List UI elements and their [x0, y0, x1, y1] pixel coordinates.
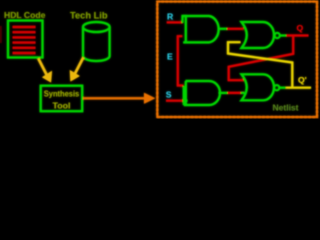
svg-text:S: S [166, 90, 172, 100]
Tech Lib database cylinder [83, 22, 110, 61]
wire S input [166, 100, 183, 102]
wire U2 output stub [219, 92, 228, 94]
svg-text:Synthesis: Synthesis [44, 89, 80, 99]
arrow from HDL Code to Synthesis Tool [38, 59, 52, 83]
wire Q feedback to U4 top input (red) [229, 36, 294, 81]
NAND gate U4 (bottom output gate) [242, 74, 275, 100]
wire U1 output stub [219, 28, 228, 30]
svg-text:Tech Lib: Tech Lib [70, 11, 108, 21]
wire R input [167, 21, 183, 23]
U4 output bubble [274, 85, 279, 90]
wire U1 output to U3 (red) [227, 28, 244, 30]
dashed netlist panel border [157, 2, 317, 118]
arrow from Tech Lib to Synthesis Tool [70, 58, 84, 82]
HDL code document red text lines [13, 27, 36, 53]
wire Q' feedback to U3 bottom input (yellow) [228, 42, 292, 87]
svg-text:Netlist: Netlist [273, 103, 299, 113]
svg-text:R: R [167, 11, 174, 21]
wire S green tick into gate U2 [183, 100, 187, 102]
svg-text:Tool: Tool [53, 101, 71, 111]
stray dark red mark at left edge [0, 26, 2, 43]
wire U2 output to U4 (red) [228, 92, 244, 94]
wire R riser to gate U1 top edge [183, 16, 188, 23]
wire U3 bubble tick [280, 34, 286, 36]
wire U2 bottom input junction tick [241, 92, 245, 94]
U3 output bubble [275, 33, 280, 38]
wire E vertical with branches to U1 and U2 [178, 36, 184, 85]
Synthesis Tool box [41, 86, 82, 112]
HDL code document icon box [8, 21, 43, 58]
svg-text:Q: Q [297, 23, 304, 33]
NAND gate U3 (top output gate) [242, 22, 275, 48]
svg-text:HDL Code: HDL Code [4, 10, 46, 20]
wire U4 bubble tick [280, 87, 286, 89]
orange arrow from Synthesis Tool to netlist panel [83, 93, 155, 104]
svg-text:Q': Q' [298, 75, 307, 85]
wire Q output (red) [286, 34, 308, 36]
AND gate U2 (bottom input gate) [184, 81, 220, 105]
wire Q' output (yellow) [286, 87, 311, 89]
AND gate U1 (top input gate) [183, 16, 219, 42]
svg-text:E: E [167, 51, 173, 61]
